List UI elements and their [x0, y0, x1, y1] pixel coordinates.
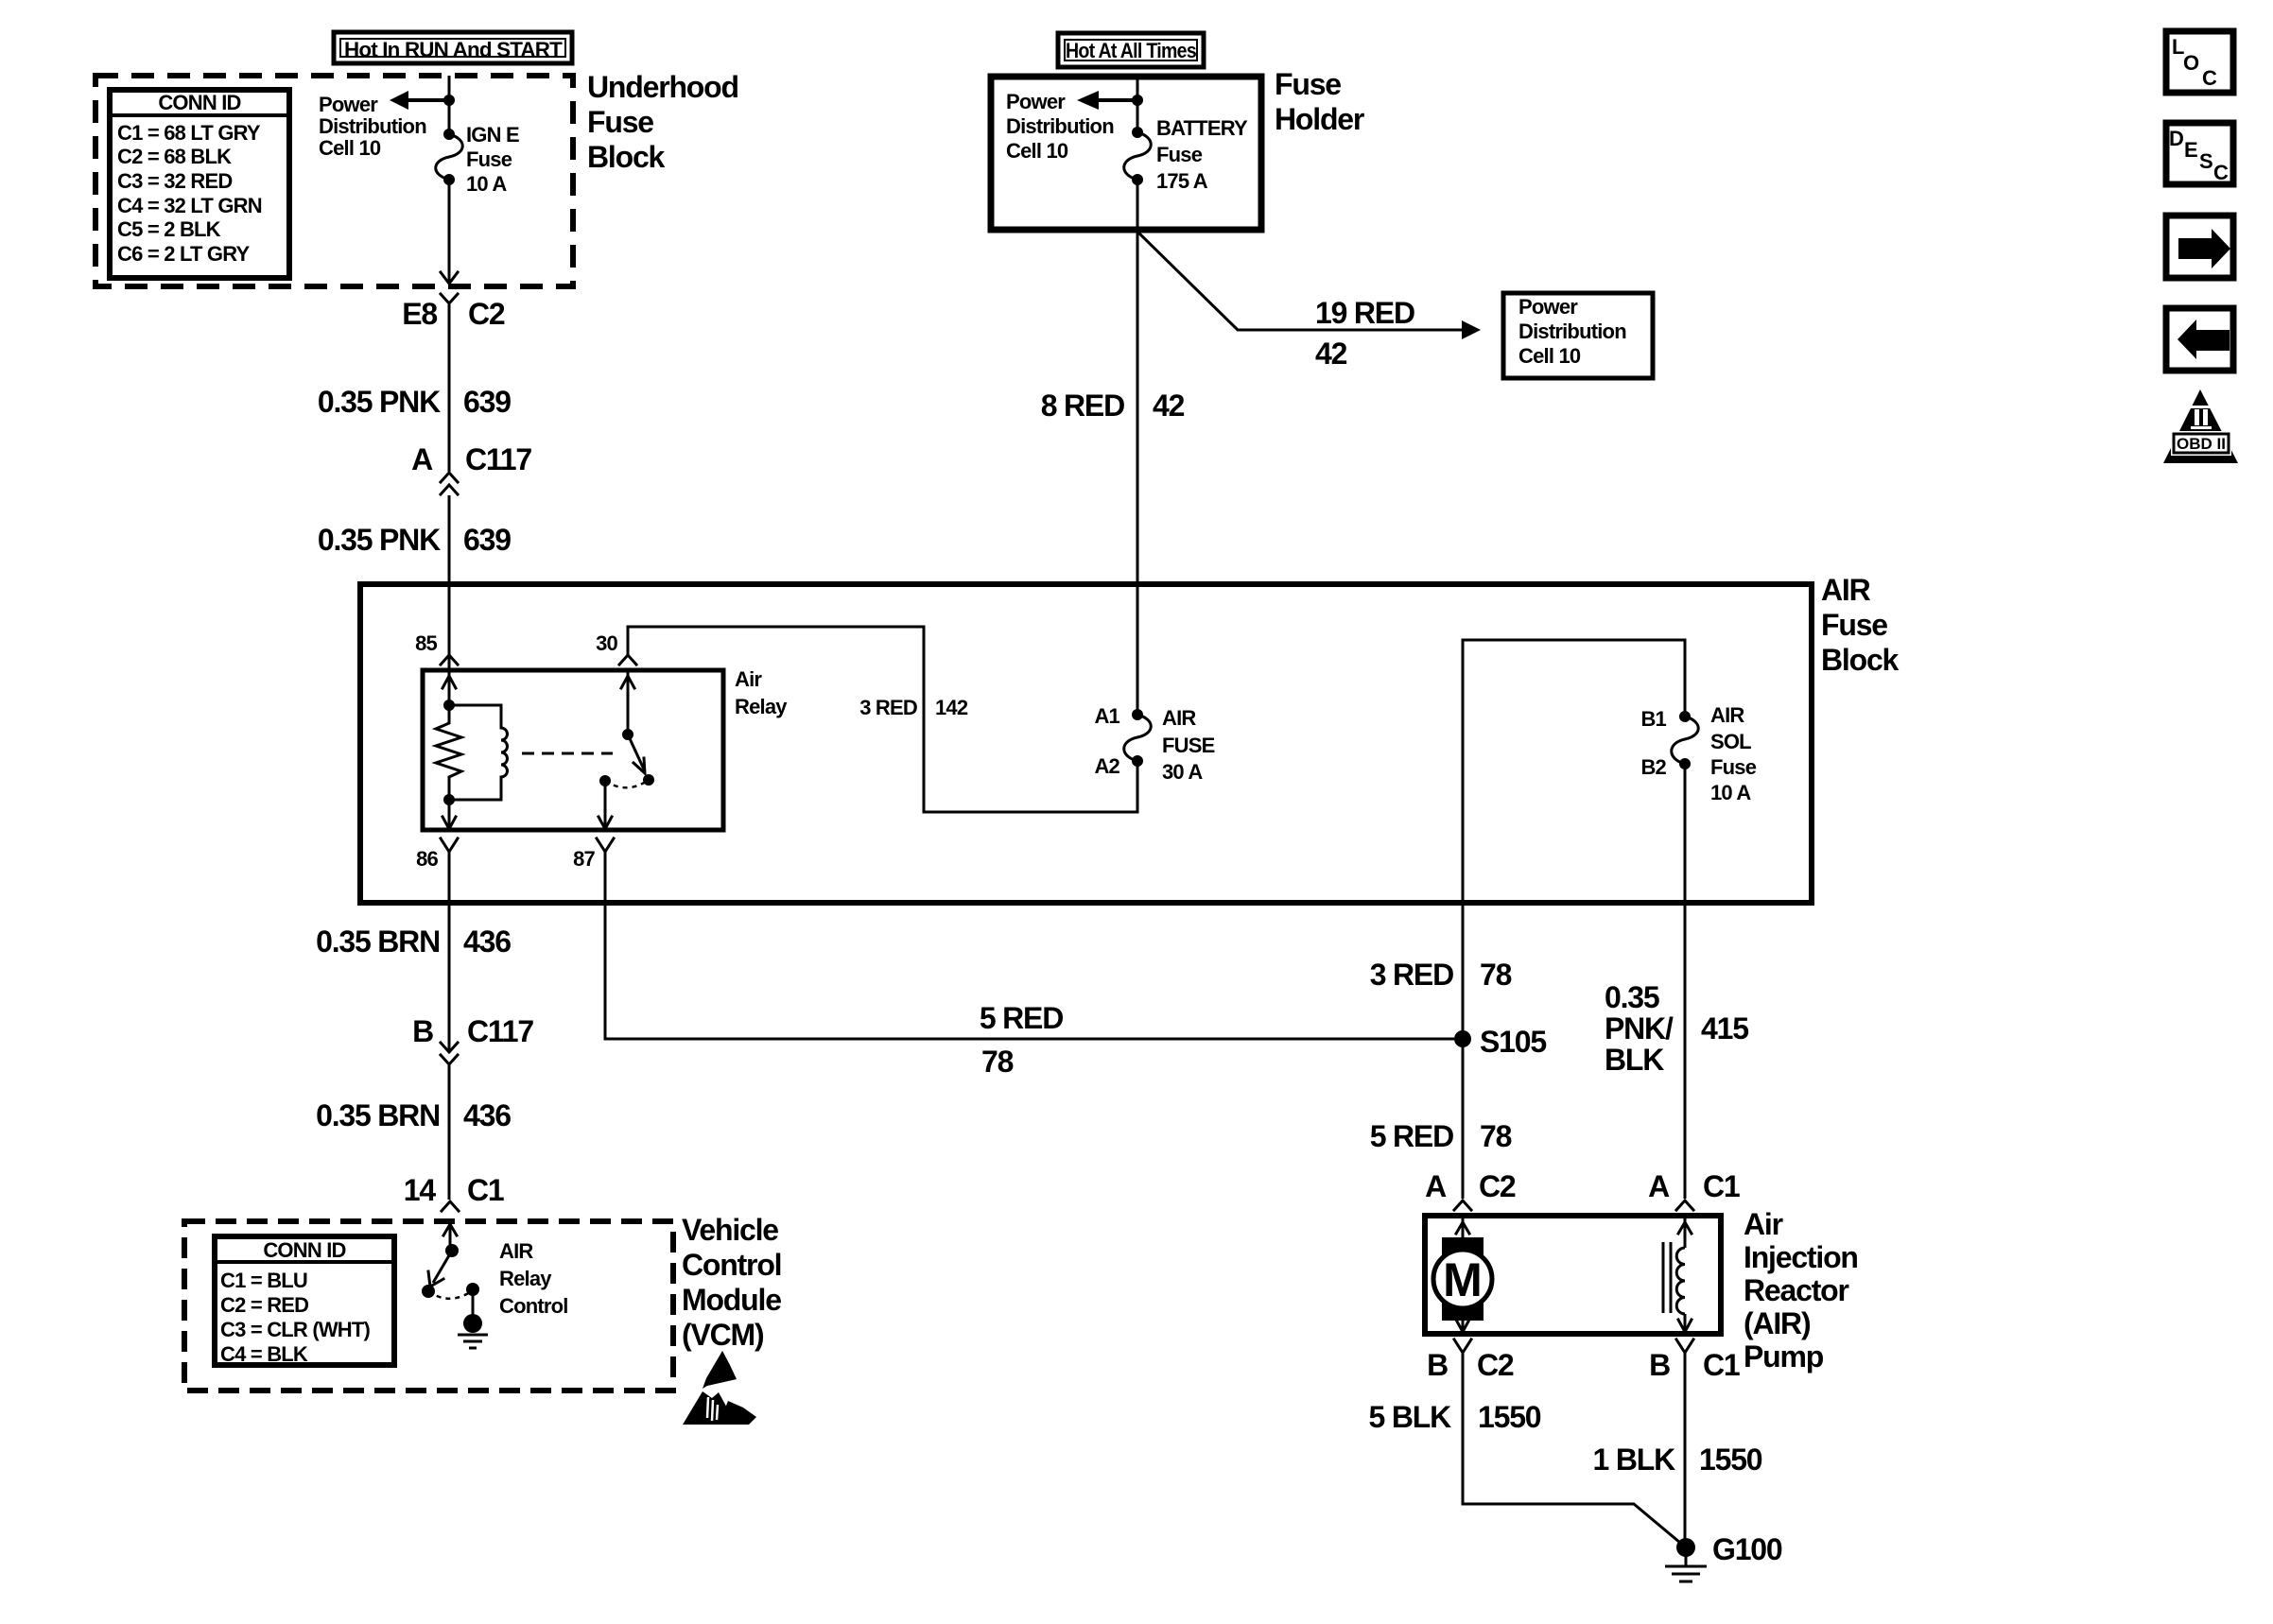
svg-text:Holder: Holder: [1275, 102, 1364, 136]
label: 0.35 PNK 639: [318, 385, 511, 419]
svg-text:C2 = 68 BLK: C2 = 68 BLK: [117, 145, 232, 168]
svg-text:Fuse: Fuse: [466, 147, 512, 171]
svg-text:Distribution: Distribution: [1518, 320, 1626, 343]
svg-text:142: 142: [935, 696, 968, 719]
svg-text:BATTERY: BATTERY: [1156, 116, 1248, 140]
relay switch contacts and dashed coupling: [599, 774, 654, 787]
svg-text:OBD II: OBD II: [2177, 435, 2226, 453]
svg-text:B: B: [1649, 1348, 1670, 1382]
label box: Hot At All Times: [1058, 33, 1204, 67]
svg-text:(VCM): (VCM): [682, 1318, 764, 1352]
svg-text:A2: A2: [1094, 754, 1119, 778]
wire: 5 RED 78 down to pump: [1462, 1030, 1465, 1199]
icon: forward arrow box: [2166, 216, 2233, 278]
svg-text:O: O: [2183, 51, 2199, 75]
box: Power Distribution Cell 10: [1503, 293, 1653, 378]
VCM internal ground: [458, 1283, 488, 1348]
svg-text:AIR: AIR: [1710, 703, 1744, 727]
wire: 5 BLK 1550 to ground: [1463, 1353, 1686, 1547]
svg-text:B1: B1: [1640, 707, 1666, 731]
junction dot at IGN feed: [443, 95, 455, 106]
wire: 0.35 BRN 436 lower: [448, 1065, 451, 1200]
svg-text:Air: Air: [1744, 1207, 1783, 1241]
wire: 19 RED 42 branch with arrow: [1137, 232, 1481, 371]
svg-text:78: 78: [981, 1045, 1014, 1079]
fuse: BATTERY Fuse 175 A: [1124, 116, 1248, 193]
svg-text:1 BLK: 1 BLK: [1593, 1443, 1676, 1477]
svg-text:E8: E8: [402, 297, 437, 331]
svg-text:0.35: 0.35: [1605, 980, 1659, 1014]
svg-text:Fuse: Fuse: [1275, 67, 1341, 101]
svg-text:Fuse: Fuse: [587, 105, 653, 139]
svg-text:Reactor: Reactor: [1744, 1273, 1849, 1307]
wire: 0.35 BRN 436 upper: [448, 852, 451, 1050]
svg-text:436: 436: [463, 1098, 511, 1132]
svg-text:C2: C2: [1479, 1169, 1516, 1203]
svg-text:C4 = 32 LT GRN: C4 = 32 LT GRN: [117, 194, 262, 217]
svg-text:C5 = 2 BLK: C5 = 2 BLK: [117, 217, 221, 241]
icon: LOC box: [2166, 31, 2233, 93]
svg-text:Underhood: Underhood: [587, 70, 738, 104]
wire from fuse to box edge with open arrow: [441, 180, 458, 284]
relay coil-switch dashed link: [522, 752, 613, 755]
svg-text:Fuse: Fuse: [1156, 143, 1203, 166]
label: 0.35 PNK/BLK 415: [1605, 980, 1748, 1077]
AIR fuse block enclosure: [360, 584, 1812, 903]
svg-text:C117: C117: [465, 442, 531, 476]
svg-text:FUSE: FUSE: [1162, 734, 1215, 757]
inline connector B C117: [412, 1014, 533, 1064]
relay switch common wire with up arrow: [621, 672, 634, 740]
svg-text:Cell 10: Cell 10: [1006, 139, 1068, 163]
svg-text:30 A: 30 A: [1162, 760, 1203, 784]
pump solenoid coil: [1663, 1218, 1692, 1332]
svg-text:1550: 1550: [1478, 1400, 1541, 1434]
fuse: AIR SOL Fuse 10 A: [1640, 703, 1756, 804]
wire: 0.35 PNK/BLK 415 down to pump: [1684, 764, 1687, 1199]
inline connector A C117: [411, 442, 531, 494]
relay coil lower wire with down arrow: [442, 800, 456, 829]
pump connector B C1: [1649, 1339, 1740, 1382]
label: 0.35 PNK 639 second: [318, 523, 511, 557]
splice S105: [1454, 1025, 1546, 1059]
VCM dashed enclosure: [184, 1221, 673, 1391]
wire: 5 RED 78 from relay 87: [605, 852, 1454, 1039]
svg-text:C1: C1: [1703, 1169, 1740, 1203]
svg-text:87: 87: [573, 847, 595, 871]
svg-text:Vehicle: Vehicle: [682, 1213, 778, 1247]
fuse: AIR FUSE 30 A: [1094, 704, 1214, 784]
svg-text:C1: C1: [467, 1173, 504, 1207]
svg-text:C1 = 68 LT GRY: C1 = 68 LT GRY: [117, 121, 261, 145]
svg-text:BLK: BLK: [1605, 1043, 1664, 1077]
svg-text:Hot In RUN And START: Hot In RUN And START: [344, 38, 563, 61]
svg-text:86: 86: [416, 847, 438, 871]
svg-text:C2: C2: [468, 297, 505, 331]
AIR pump box: [1425, 1216, 1721, 1334]
svg-text:B: B: [412, 1014, 433, 1048]
label: Vehicle Control Module (VCM): [682, 1213, 781, 1352]
svg-text:Pump: Pump: [1744, 1339, 1824, 1373]
svg-text:42: 42: [1153, 389, 1185, 423]
svg-text:Relay: Relay: [735, 695, 788, 718]
svg-text:C: C: [2202, 66, 2217, 90]
svg-text:Cell 10: Cell 10: [319, 136, 381, 160]
label: 0.35 BRN 436 second: [316, 1098, 511, 1132]
relay pin 87 connector: [573, 838, 614, 871]
svg-text:3 RED: 3 RED: [859, 696, 917, 719]
svg-text:D: D: [2169, 127, 2183, 150]
svg-text:C4 = BLK: C4 = BLK: [220, 1342, 308, 1366]
svg-text:10 A: 10 A: [1710, 781, 1751, 804]
svg-text:Block: Block: [587, 140, 666, 174]
power distribution cell 10 label + arrow (underhood): [319, 91, 449, 160]
label: 1 BLK 1550: [1593, 1443, 1762, 1477]
wire: fuse to box bottom: [1136, 180, 1139, 231]
svg-text:AIR: AIR: [1162, 706, 1196, 730]
connector 14 C1: [404, 1173, 504, 1211]
svg-text:5 RED: 5 RED: [980, 1001, 1063, 1035]
svg-text:C3 = 32 RED: C3 = 32 RED: [117, 169, 232, 193]
svg-text:A: A: [411, 442, 433, 476]
svg-text:14: 14: [404, 1173, 437, 1207]
svg-text:5 BLK: 5 BLK: [1369, 1400, 1452, 1434]
connector ID table (VCM): [215, 1236, 394, 1366]
svg-text:Distribution: Distribution: [319, 114, 426, 138]
svg-text:B2: B2: [1640, 755, 1666, 779]
wire: hot feed into IGN E fuse: [448, 76, 451, 134]
svg-text:Block: Block: [1821, 643, 1900, 677]
svg-text:Module: Module: [682, 1283, 781, 1317]
wire: 0.35 PNK 639 (upper): [448, 304, 451, 472]
svg-text:CONN ID: CONN ID: [158, 91, 240, 114]
svg-text:Injection: Injection: [1744, 1240, 1858, 1274]
svg-text:0.35 BRN: 0.35 BRN: [316, 924, 440, 959]
label: AIR Fuse Block: [1821, 573, 1900, 677]
svg-text:Control: Control: [682, 1248, 781, 1282]
svg-text:AIR: AIR: [499, 1239, 533, 1263]
svg-text:639: 639: [463, 385, 511, 419]
wire: 8 RED 42 vertical: [1136, 231, 1139, 715]
wire: 1 BLK 1550 to ground: [1684, 1353, 1687, 1547]
label: 3 RED 142: [859, 696, 968, 719]
ESD warning triangle: [683, 1351, 756, 1425]
relay coil: [453, 705, 508, 800]
svg-text:Control: Control: [499, 1294, 568, 1318]
svg-text:78: 78: [1480, 1119, 1512, 1153]
svg-text:A: A: [1425, 1169, 1447, 1203]
svg-text:Fuse: Fuse: [1710, 755, 1757, 779]
svg-text:5 RED: 5 RED: [1370, 1119, 1453, 1153]
svg-text:C6 = 2 LT GRY: C6 = 2 LT GRY: [117, 242, 250, 266]
label: 0.35 BRN 436: [316, 924, 511, 959]
relay switched output wire with down arrow: [599, 781, 612, 829]
label box: Hot In RUN And START: [334, 32, 572, 63]
label: 5 RED 78 horizontal: [980, 1001, 1063, 1079]
junction dot at battery feed: [1132, 95, 1143, 106]
svg-text:Power: Power: [1006, 90, 1066, 113]
svg-text:E: E: [2184, 138, 2197, 162]
svg-text:Air: Air: [735, 667, 762, 691]
relay pin 85 connector: [415, 631, 458, 665]
pump connector A C2: [1425, 1169, 1516, 1210]
VCM switch blade with arrowhead: [428, 1251, 452, 1287]
relay switch blade with arrowhead: [628, 734, 645, 773]
svg-text:CONN ID: CONN ID: [263, 1238, 345, 1262]
wire: pin 30 up and over to AIR FUSE: [628, 627, 1137, 812]
VCM driver wire with up arrow: [443, 1223, 459, 1257]
fuse: IGN E Fuse 10 A: [436, 123, 519, 196]
svg-text:8 RED: 8 RED: [1041, 389, 1124, 423]
label: Underhood Fuse Block: [587, 70, 738, 174]
wire: battery feed: [1136, 77, 1139, 132]
wire: 0.35 PNK 639 (lower): [448, 495, 451, 668]
svg-text:Fuse: Fuse: [1821, 608, 1887, 642]
svg-text:S105: S105: [1480, 1025, 1546, 1059]
relay: Air Relay box: [423, 667, 788, 830]
svg-text:0.35 PNK: 0.35 PNK: [318, 385, 441, 419]
svg-text:S: S: [2199, 149, 2212, 173]
svg-text:Power: Power: [1518, 295, 1578, 319]
svg-text:C2 = RED: C2 = RED: [220, 1293, 308, 1317]
connector ID table (underhood fuse block): [110, 90, 289, 278]
svg-text:0.35 PNK: 0.35 PNK: [318, 523, 441, 557]
svg-text:C3 = CLR (WHT): C3 = CLR (WHT): [220, 1318, 371, 1341]
svg-text:AIR: AIR: [1821, 573, 1871, 607]
fuse holder box: [991, 77, 1261, 230]
svg-text:PNK/: PNK/: [1605, 1011, 1674, 1045]
svg-text:30: 30: [596, 631, 617, 655]
svg-text:78: 78: [1480, 958, 1512, 992]
svg-text:639: 639: [463, 523, 511, 557]
svg-text:Distribution: Distribution: [1006, 114, 1114, 138]
svg-text:0.35 BRN: 0.35 BRN: [316, 1098, 440, 1132]
icon: back arrow box: [2166, 308, 2233, 371]
relay resistor: [436, 705, 461, 800]
svg-text:Power: Power: [319, 93, 378, 116]
svg-text:B: B: [1427, 1348, 1448, 1382]
pump motor M: [1433, 1218, 1492, 1332]
svg-text:A: A: [1648, 1169, 1670, 1203]
VCM switch contact and dashed coupling: [422, 1285, 473, 1299]
connector E8 C2: [402, 294, 505, 331]
svg-text:Hot At All Times: Hot At All Times: [1066, 39, 1196, 62]
svg-text:415: 415: [1701, 1011, 1748, 1045]
pump connector B C2: [1427, 1339, 1514, 1382]
svg-text:M: M: [1443, 1253, 1483, 1306]
icon: DESC box: [2166, 123, 2233, 184]
power distribution cell 10 label + arrow (fuse holder): [1006, 90, 1137, 163]
svg-text:IGN E: IGN E: [466, 123, 519, 147]
relay coil branch wire with up arrow: [442, 672, 456, 711]
svg-text:C2: C2: [1477, 1348, 1514, 1382]
svg-text:A1: A1: [1094, 704, 1119, 728]
svg-text:175 A: 175 A: [1156, 169, 1208, 193]
svg-text:SOL: SOL: [1710, 730, 1751, 753]
label: Fuse Holder: [1275, 67, 1364, 136]
ground G100: [1665, 1532, 1782, 1581]
svg-text:3 RED: 3 RED: [1370, 958, 1453, 992]
svg-text:(AIR): (AIR): [1744, 1306, 1811, 1340]
svg-text:436: 436: [463, 924, 511, 959]
label: 5 BLK 1550: [1369, 1400, 1541, 1434]
wire: inner jumper across AIR fuse block: [1463, 640, 1685, 1030]
svg-text:1550: 1550: [1699, 1443, 1762, 1477]
svg-text:C117: C117: [467, 1014, 533, 1048]
svg-text:85: 85: [415, 631, 437, 655]
label: 8 RED 42: [1041, 389, 1185, 423]
label: 5 RED 78 vertical: [1370, 1119, 1512, 1153]
svg-text:G100: G100: [1712, 1532, 1782, 1566]
svg-text:C: C: [2213, 161, 2229, 184]
svg-text:Relay: Relay: [499, 1267, 552, 1290]
svg-text:C1 = BLU: C1 = BLU: [220, 1269, 307, 1292]
relay pin 30 connector: [596, 631, 636, 665]
svg-text:42: 42: [1315, 337, 1347, 371]
relay pin 86 connector: [416, 838, 458, 871]
label: Air Injection Reactor (AIR) Pump: [1744, 1207, 1858, 1373]
svg-text:10 A: 10 A: [466, 172, 507, 196]
icon: OBD II triangle: [2163, 389, 2238, 463]
label: AIR Relay Control: [499, 1239, 568, 1318]
label: 3 RED 78: [1370, 958, 1512, 992]
pump connector A C1: [1648, 1169, 1740, 1210]
svg-text:C1: C1: [1703, 1348, 1740, 1382]
svg-text:19 RED: 19 RED: [1315, 296, 1414, 330]
svg-text:Cell 10: Cell 10: [1518, 344, 1581, 368]
underhood fuse block dashed enclosure: [95, 76, 573, 286]
